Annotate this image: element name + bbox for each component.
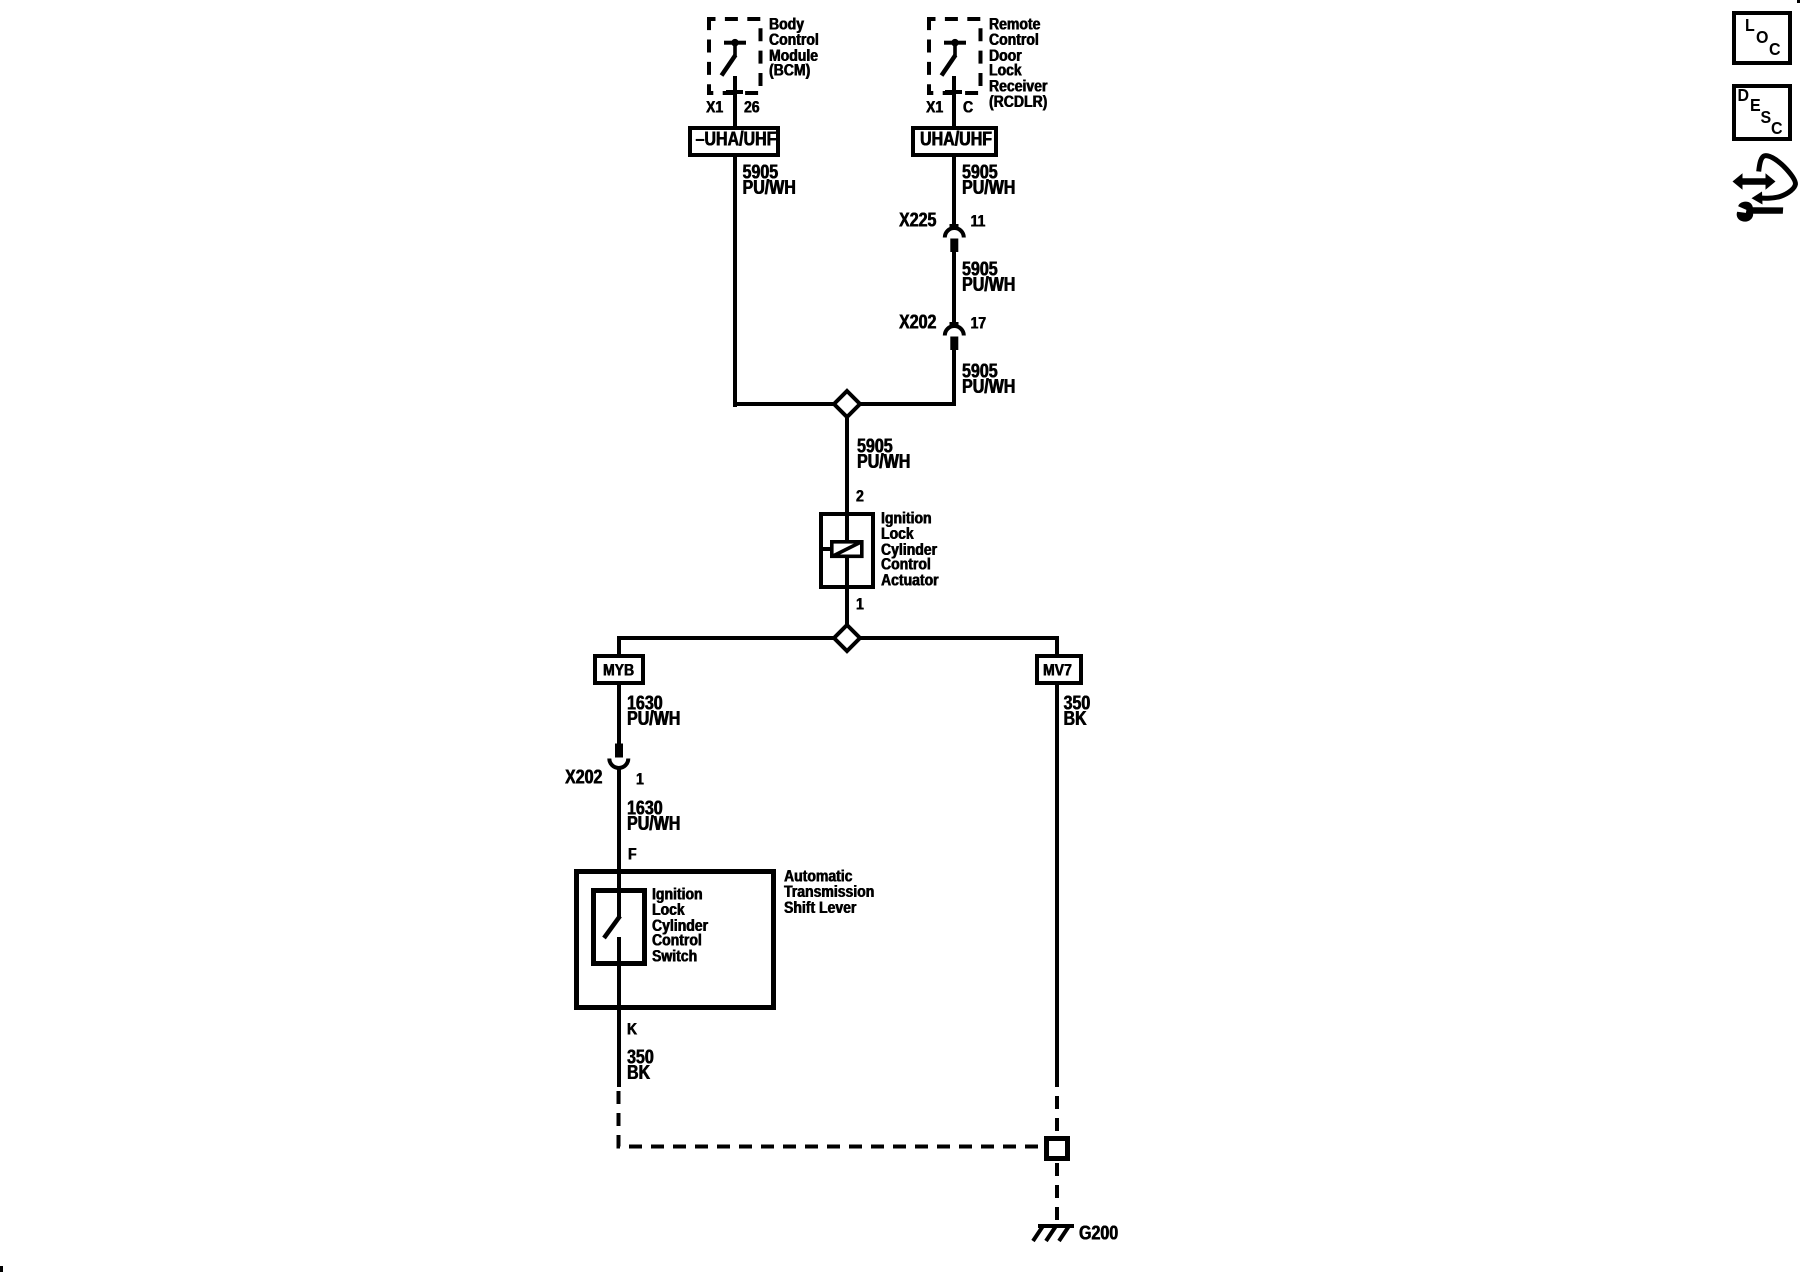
module RCDLR dashed box [927,17,983,95]
wire J1 to actuator (5905 PU/WH) [845,418,849,542]
wire label 5905 PU/WH (center) [857,440,910,471]
bottom left mark [0,1266,3,1272]
connector X202 pin 17 [971,315,987,330]
connector box MYB [593,654,645,685]
tick at RCDLR box edge [945,90,962,94]
wire RCDLR to UHA/UHF [952,76,956,127]
wire X202 down to corner (5905 PU/WH) [952,350,956,407]
BCM internal switch [718,36,752,78]
wire label 1630 PU/WH (upper) [627,697,680,728]
pin 26 (BCM) [744,99,760,114]
wire actuator to junction J2 [845,557,849,625]
pin 2 (actuator) [856,488,864,503]
connector X225 symbol [940,220,970,256]
wire UHA/UHF to X225 (5905 PU/WH) [952,157,956,225]
dashed wire from K wire to ground square [0,0,1200,1200]
top right mark [1797,0,1800,3]
pin C (RCDLR) [963,99,973,114]
icon box DESC [1732,84,1792,141]
fuse box UHA/UHF [911,126,998,157]
wire corner down to MYB [617,636,621,655]
wire BCM to -UHA/UHF [733,76,737,127]
wire -UHA/UHF down (5905 PU/WH) [733,157,737,407]
connector X202 symbol (left, mirrored) [604,740,634,774]
connector X202 pin 1 [636,771,644,786]
pin K [627,1021,637,1036]
dashed wire MV7 to ground square [0,0,1200,1200]
component box Ignition Lock Cylinder Control Actuator [819,512,875,589]
wire horizontal right of junction J1 [857,402,956,406]
connector X202 label (right) [899,316,936,332]
pin X1 (RCDLR) [926,99,943,114]
actuator element rect with diagonal [829,539,865,559]
wire switch lower stub to K [617,937,621,1087]
wire label 5905 PU/WH (right top) [962,166,1015,197]
pin 1 (actuator) [856,596,864,611]
connector X202 symbol (right) [940,318,970,354]
switch label [652,886,708,963]
BCM label [769,16,819,78]
ground symbol G200 [1028,1220,1080,1246]
wire corner down to MV7 [1055,636,1059,655]
wire X225 to X202 (5905 PU/WH) [952,252,956,322]
wire X202 to shift lever box (1630 PU/WH) [617,768,621,918]
splice junction J2 (diamond) [831,622,863,654]
wire MV7 down (350 BK) [1055,685,1059,1074]
wire horizontal right of junction J2 [857,636,1059,640]
RCDLR label [989,16,1047,109]
connector X202 label (left) [565,771,602,787]
ATSL label [784,868,874,914]
connector box MV7 [1035,654,1083,685]
RCDLR internal switch [938,36,972,78]
component box Automatic Transmission Shift Lever [574,869,776,1010]
module BCM dashed box [707,17,763,95]
switch box Ignition Lock Cylinder Control Switch [591,888,647,966]
connector X225 label [899,214,936,230]
wire horizontal left of junction J1 [733,402,837,406]
wire label 1630 PU/WH (lower) [627,802,680,833]
actuator tick [819,547,832,551]
connector X225 pin 11 [971,213,986,228]
ground splice square [1044,1136,1070,1161]
wire label 350 BK (left) [627,1051,654,1082]
actuator label [881,510,939,587]
splice junction J1 (diamond) [831,388,863,420]
icon arrows and wrench [1730,152,1800,226]
fuse box -UHA/UHF [688,126,781,157]
wire MYB down (1630 PU/WH) [617,685,621,744]
wire label 5905 PU/WH (right low) [962,365,1015,396]
wire horizontal left of junction J2 [617,636,838,640]
wire label 350 BK (right) [1064,697,1091,728]
wire label 5905 PU/WH (left) [743,166,796,197]
dashed wire square to ground [0,0,1200,1260]
tick at BCM box edge [726,90,743,94]
switch lever (ILCC switch) [598,910,626,944]
pin F [628,846,637,861]
ground label G200 [1079,1227,1118,1243]
wire label 5905 PU/WH (right mid) [962,263,1015,294]
icon box LOC [1732,11,1792,65]
pin X1 (BCM) [706,99,723,114]
